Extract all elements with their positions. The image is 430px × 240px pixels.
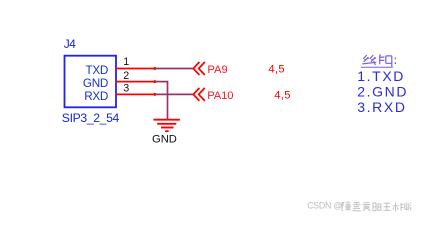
note line 3.RXD — [357, 99, 406, 115]
wire GND net horizontal (dark) — [155, 81, 168, 83]
net label arrow PA9 (double chevron) — [193, 62, 205, 75]
note line 1.TXD — [357, 68, 405, 84]
footprint label SIP3_2_54 — [62, 111, 120, 125]
svg-text:1: 1 — [123, 56, 129, 68]
svg-text:RXD: RXD — [84, 90, 108, 103]
svg-text:1.TXD: 1.TXD — [357, 68, 405, 84]
junction dot pin3/net — [153, 93, 156, 96]
connector J4 body rectangle — [65, 56, 117, 108]
junction dot pin1/net — [153, 67, 156, 70]
svg-text:CSDN @: CSDN @ — [307, 200, 342, 210]
watermark author Chinese characters (stylized) — [342, 202, 411, 211]
pin 1 stub wire (red) — [116, 68, 155, 70]
svg-text:4,5: 4,5 — [268, 63, 284, 75]
pin number 1 — [123, 56, 129, 68]
svg-text:J4: J4 — [64, 37, 76, 51]
ground symbol bars — [153, 120, 180, 132]
svg-text:2: 2 — [123, 70, 129, 82]
pin name RXD — [84, 90, 108, 103]
pin number 3 — [123, 83, 129, 95]
wire GND net vertical drop (dark) — [167, 81, 169, 120]
svg-text:PA10: PA10 — [207, 90, 233, 102]
svg-text:TXD: TXD — [86, 64, 108, 77]
svg-text:GND: GND — [152, 134, 177, 146]
wire RXD net to PA10 (dark) — [155, 93, 194, 95]
silkscreen note heading (Chinese: si-yin = silkscreen) — [361, 55, 396, 68]
note line 2.GND — [357, 84, 408, 100]
pin 3 stub wire (red) — [116, 93, 155, 95]
net label text PA10 — [207, 90, 233, 102]
pin number 2 — [123, 70, 129, 82]
annotation 4,5 lower — [274, 90, 290, 102]
svg-text:3.RXD: 3.RXD — [357, 99, 406, 115]
wire TXD net to PA9 (dark) — [155, 68, 194, 70]
junction dot pin2/net — [153, 80, 156, 83]
svg-text:2.GND: 2.GND — [357, 84, 408, 100]
pin name TXD — [86, 64, 108, 77]
svg-text:4,5: 4,5 — [274, 90, 290, 102]
net label text PA9 — [207, 64, 227, 76]
ground label GND — [152, 134, 177, 146]
svg-text:PA9: PA9 — [207, 64, 227, 76]
connector J4 designator label — [64, 37, 76, 51]
pin 2 stub wire (red) — [116, 81, 155, 83]
annotation 4,5 upper — [268, 63, 284, 75]
net label arrow PA10 (double chevron) — [193, 88, 205, 101]
svg-text:SIP3_2_54: SIP3_2_54 — [62, 111, 120, 125]
svg-text:3: 3 — [123, 83, 129, 95]
svg-text:GND: GND — [83, 77, 108, 90]
watermark CSDN @ — [307, 200, 342, 210]
pin name GND — [83, 77, 108, 90]
